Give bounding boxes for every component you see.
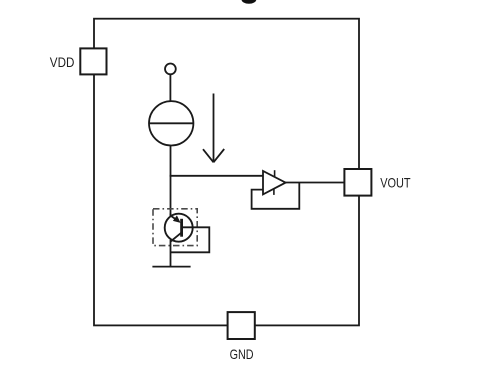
svg-text:VDD: VDD: [50, 54, 75, 70]
svg-text:GND: GND: [230, 346, 254, 362]
svg-text:VOUT: VOUT: [380, 175, 411, 191]
